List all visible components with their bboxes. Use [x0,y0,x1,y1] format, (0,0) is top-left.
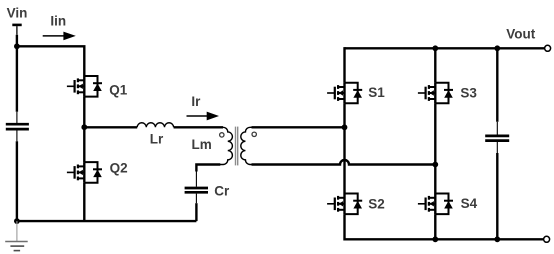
capacitor Cout plates [485,135,509,138]
svg-text:Ir: Ir [191,94,201,109]
svg-text:Q2: Q2 [110,161,128,176]
wire: left rail upper [16,35,18,112]
wire: top rail (Vout) [345,47,545,49]
wire: Cr to bottom rail [195,203,197,221]
input terminal bar (Vin) [12,24,21,27]
node: left leg midpoint dot [342,124,348,130]
svg-text:Q1: Q1 [109,83,128,98]
svg-text:Vin: Vin [7,5,28,20]
wire: bottom rail (left circuit) [17,220,197,222]
wire: output branch upper [496,48,498,122]
transformer T1 core [235,127,237,166]
transformer secondary polarity dot [252,132,256,136]
arrow Ir [187,115,209,117]
svg-text:S3: S3 [460,85,477,100]
capacitor Cin plates [6,123,29,126]
arrow Iin [43,35,65,37]
transistor S1 [327,83,362,104]
svg-text:S2: S2 [368,197,385,212]
node: top rail dots [432,45,438,51]
wire: Q2 source to bottom rail [83,183,85,221]
svg-text:Iin: Iin [50,14,66,29]
wire: mid junction to Lr [84,126,137,128]
wire: mid junction down to Q2 drain [83,127,85,162]
capacitor Cr plates [185,187,208,190]
wire: secondary top to bridge left leg midpoint [252,126,345,128]
wire: bridge right leg [434,47,436,240]
transformer secondary winding [241,127,254,164]
node: bottom rail dots [432,236,438,242]
wire: bridge left leg [343,47,345,240]
node: ground junction dot [14,218,20,224]
svg-text:S4: S4 [461,196,478,211]
transistor S3 [418,83,453,104]
transformer primary winding (Lm) [220,127,233,164]
capacitor Cin thin leads [16,112,18,123]
inductor Lr coil [137,123,173,128]
capacitor Cr thin leads [195,172,197,187]
wire: bottom rail (output return) [345,238,544,240]
transformer primary polarity dot [220,133,224,137]
svg-text:Lr: Lr [150,131,164,146]
svg-text:S1: S1 [368,85,385,100]
svg-text:Lm: Lm [192,137,212,152]
wire: secondary bottom with hop over left leg, to right leg midpoint [252,160,436,165]
ground [5,221,28,251]
node: Vin junction dot [14,43,20,49]
wire: top left horizontal (Vin node to Q1 drain) [17,46,84,76]
wire: left rail lower [16,141,18,221]
transistor S4 [418,194,453,215]
terminal: Vout+ [545,45,551,51]
terminal: Vout- [544,236,550,242]
node: right leg midpoint dot [432,162,438,168]
transistor Q2 [67,162,102,183]
wire: Q1 source to mid junction [83,97,85,128]
svg-text:Vout: Vout [506,27,535,42]
node: Q1/Q2 midpoint dot [81,124,87,130]
wire: Lr to transformer primary top [174,126,223,128]
transistor Q1 [67,76,102,97]
wire: transformer primary bottom to Cr [196,165,220,172]
capacitor Cout thin leads [496,122,498,135]
wire: Vin terminal thin lead [16,26,18,35]
transistor S2 [327,194,362,215]
svg-text:Cr: Cr [214,184,230,199]
wire: output branch lower [496,153,498,239]
